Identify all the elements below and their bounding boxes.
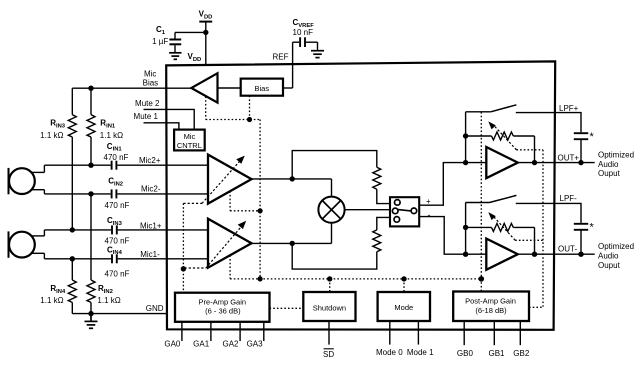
svg-text:1.1 kΩ: 1.1 kΩ [97, 296, 120, 305]
label 470 nF CIN2 [105, 201, 130, 210]
wire dotted bus to shutdown [329, 279, 331, 292]
control bus dashed horizontal [230, 278, 481, 280]
svg-text:OUT+: OUT+ [558, 153, 580, 162]
capacitor CIN4 [112, 254, 209, 263]
svg-text:GND: GND [146, 304, 164, 313]
wire OUT- [518, 253, 595, 255]
svg-text:Mic2-: Mic2- [141, 184, 161, 193]
node junction RIN1/Mic2+ [88, 163, 93, 168]
svg-text:GA2: GA2 [222, 340, 239, 349]
node junction OUT+ feedback [532, 160, 537, 165]
label OUT+ [558, 153, 580, 162]
label Optimized Audio Ouput (lower) [598, 242, 634, 270]
op-amp U1 mute tap dashed [230, 191, 260, 211]
wire R top to switch box [377, 189, 390, 203]
label Mic1- pin [140, 250, 160, 259]
microphone MIC1 (top) [9, 165, 45, 194]
node junction RIN2/Mic2- [88, 191, 93, 196]
wire U1 out down to mixer [331, 179, 333, 197]
node junction RIN4/Mic1- [70, 256, 75, 261]
resistor R top (to switch) [373, 167, 381, 189]
block Bias [241, 79, 283, 96]
wire U3 feedback left leg [465, 112, 467, 163]
ground symbol at GND [85, 314, 98, 329]
wire dotted LPF switch control vertical [480, 112, 482, 292]
svg-text:Optimized: Optimized [598, 151, 634, 160]
node junction VDD-C1 [203, 30, 208, 35]
wire U6 out to R bottom [292, 243, 377, 269]
label OUT- [558, 245, 577, 254]
capacitor CVREF [293, 37, 318, 50]
label RIN4 [50, 284, 66, 295]
label Mute 1 [134, 112, 159, 121]
wire U1 output [252, 178, 332, 180]
label CVREF [293, 18, 315, 29]
pin Mode 1 [417, 321, 419, 345]
capacitor C1 [169, 32, 181, 52]
feedback resistor U4 [466, 223, 535, 254]
svg-text:(6-18 dB): (6-18 dB) [475, 306, 507, 315]
capacitor CIN3 [112, 225, 209, 234]
wire R bottom to switch box [377, 217, 390, 230]
wire Mute 2 [144, 109, 195, 129]
wire OUT+ [518, 162, 595, 164]
pin GA0 [181, 322, 183, 341]
resistor RIN3 [68, 88, 76, 230]
label 470 nF CIN3 [105, 236, 130, 245]
svg-text:(6 - 36 dB): (6 - 36 dB) [205, 307, 241, 316]
label * upper [590, 131, 595, 143]
node dot gain control [181, 266, 186, 271]
label 1.1 kOhm RIN4 [40, 296, 63, 305]
svg-text:REF: REF [273, 53, 289, 62]
label RIN1 [100, 119, 116, 130]
node VDD top label [199, 10, 213, 21]
label 10 nF [293, 28, 314, 37]
block Shutdown [303, 292, 355, 321]
capacitor LPF- external [574, 224, 588, 254]
wire Mic2+ line [44, 164, 110, 166]
feedback resistor U3 [466, 132, 535, 163]
wire dotted U2-bias to control bus [206, 96, 260, 279]
wire U6 out to mixer [331, 223, 333, 244]
wire switch + output to U3 [419, 163, 486, 206]
wire Mic2- line [44, 193, 110, 195]
wire Mute 1 [144, 123, 179, 130]
wire U4 feedback left leg [465, 203, 467, 255]
op-amp U2 mic bias buffer [191, 73, 217, 102]
wire VDD vertical [205, 22, 207, 66]
svg-text:1 µF: 1 µF [152, 37, 168, 46]
ground below C1 [169, 53, 181, 60]
svg-text:Ouput: Ouput [598, 169, 621, 178]
svg-text:GA0: GA0 [164, 340, 181, 349]
svg-text:Mute 1: Mute 1 [134, 112, 159, 121]
IC main block outline [166, 61, 555, 329]
pin GB0 [463, 321, 465, 345]
block Mic CNTRL [174, 130, 205, 151]
block Mode [378, 292, 430, 321]
svg-text:Mode 1: Mode 1 [407, 348, 434, 357]
block Post-Amp Gain [453, 292, 529, 322]
pin GA3 [263, 322, 265, 341]
wire LPF- [516, 203, 581, 223]
svg-text:Mic: Mic [144, 70, 156, 79]
svg-text:Post-Amp Gain: Post-Amp Gain [465, 297, 516, 306]
svg-text:LPF-: LPF- [560, 194, 578, 203]
svg-text:470 nF: 470 nF [104, 153, 129, 162]
label GND [146, 304, 164, 313]
svg-text:1.1 kΩ: 1.1 kΩ [100, 131, 123, 140]
svg-text:Mute 2: Mute 2 [135, 99, 160, 108]
label CIN3 [107, 216, 123, 227]
svg-text:CNTRL: CNTRL [177, 141, 202, 150]
svg-text:Audio: Audio [598, 160, 619, 169]
node junction U1 out [290, 176, 295, 181]
label Mic Bias [143, 70, 159, 88]
label 1.1 kOhm RIN1 [100, 131, 123, 140]
svg-text:Pre-Amp Gain: Pre-Amp Gain [199, 298, 247, 307]
label CIN1 [107, 142, 123, 153]
label GB1 [488, 349, 505, 358]
op-amp U6 mute tap dashed [229, 255, 231, 279]
node dot control bus lower [258, 276, 263, 281]
svg-text:Audio: Audio [598, 252, 619, 261]
svg-text:*: * [590, 221, 595, 233]
svg-text:470 nF: 470 nF [105, 236, 130, 245]
wire dotted post-amp gain right [529, 306, 543, 308]
label GA3 [247, 340, 264, 349]
label 1 uF [152, 37, 168, 46]
svg-text:Mic1+: Mic1+ [140, 222, 162, 231]
svg-text:Mic2+: Mic2+ [139, 156, 161, 165]
label Mic1+ pin [140, 222, 162, 231]
resistor RIN4 [68, 259, 76, 314]
label VDD at pin [188, 52, 202, 63]
gain arrow U4 (dashed) [493, 216, 515, 240]
svg-text:470 nF: 470 nF [105, 201, 130, 210]
op-amp U4 output bottom [486, 239, 518, 270]
label 1.1 kOhm RIN2 [97, 296, 120, 305]
label 470 nF CIN1 [104, 153, 129, 162]
node dot bus shutdown [327, 276, 332, 281]
wire dotted post-gain control to U4 arrow [515, 239, 543, 241]
svg-text:Optimized: Optimized [598, 242, 634, 251]
pin GA2 [239, 322, 241, 341]
svg-text:10 nF: 10 nF [293, 28, 314, 37]
label C1 [156, 25, 166, 36]
wire U1 out to R top [292, 151, 377, 179]
svg-text:GB0: GB0 [457, 349, 474, 358]
node junction U3 input [463, 160, 468, 165]
wire VDD to C1 [175, 31, 206, 33]
node junction OUT- external [578, 252, 583, 257]
wire switch - output to U4 [419, 217, 486, 255]
svg-text:Bias: Bias [255, 84, 270, 93]
gain arrow U6 (dashed) [185, 226, 242, 268]
ground below CVREF [311, 51, 324, 58]
svg-text:SD: SD [323, 350, 334, 359]
resistor RIN1 [87, 88, 95, 165]
wire REF pin [292, 42, 294, 88]
wire Mic1+ line [44, 229, 111, 231]
op-amp U6 pre-amp bottom [208, 219, 252, 268]
node junction U4 feedback [463, 225, 468, 230]
node junction GND/ground [88, 311, 93, 316]
node junction RIN3/Mic1+ [70, 227, 75, 232]
wire U6 output [252, 242, 332, 244]
label SD with overline [323, 350, 334, 359]
label CIN2 [108, 177, 123, 188]
wire LPF+ [516, 113, 581, 133]
node junction U6 out [290, 241, 295, 246]
svg-text:Mic1-: Mic1- [140, 250, 160, 259]
wire dotted bus to mode [403, 279, 405, 292]
svg-text:1.1 kΩ: 1.1 kΩ [40, 131, 63, 140]
svg-text:*: * [590, 131, 595, 143]
wire U2 to Bias [218, 87, 241, 89]
capacitor CIN1 [112, 161, 209, 170]
mixer (multiplier) [318, 197, 344, 223]
resistor R bottom (to switch) [373, 230, 381, 252]
svg-text:GB1: GB1 [488, 349, 505, 358]
label - [428, 210, 431, 220]
svg-text:GA1: GA1 [193, 340, 210, 349]
switch LPF- [466, 195, 517, 202]
label LPF- [560, 194, 578, 203]
svg-text:-: - [428, 210, 431, 220]
resistor RIN2 [87, 194, 95, 314]
wire dotted pre-amp to shutdown [270, 307, 304, 309]
node junction mic bias / RIN1 [88, 86, 93, 91]
node dot bias dotted junction [247, 117, 252, 122]
svg-text:Bias: Bias [143, 78, 159, 87]
node dot bus mode [401, 276, 406, 281]
label GA1 [193, 340, 210, 349]
label GA0 [164, 340, 181, 349]
label GB0 [457, 349, 474, 358]
wire dashed gain control vertical [182, 203, 184, 292]
op-amp U1 pre-amp top [208, 155, 252, 204]
power terminal VDD [199, 21, 212, 23]
gain arrow U1 (dashed) [183, 161, 240, 204]
node junction OUT- feedback [532, 252, 537, 257]
label 1.1 kOhm RIN3 [40, 131, 63, 140]
svg-text:Ouput: Ouput [598, 261, 621, 270]
svg-text:Mic: Mic [184, 132, 196, 141]
op-amp U3 output top [486, 147, 518, 178]
label Optimized Audio Ouput (upper) [598, 151, 634, 178]
label Mode 1 [407, 348, 434, 357]
wire REF to Bias box [283, 87, 293, 89]
label + [426, 197, 431, 206]
pin Mode 0 [389, 321, 391, 345]
label REF [273, 53, 289, 62]
gain arrow U3 (dashed) [494, 125, 517, 150]
svg-text:OUT-: OUT- [558, 245, 577, 254]
label * lower [590, 221, 595, 233]
label Mute 2 [135, 99, 160, 108]
label RIN3 [50, 119, 66, 130]
node dot control bus at post-amp [479, 276, 485, 282]
svg-text:Mode 0: Mode 0 [376, 348, 403, 357]
node junction U3 feedback [463, 133, 468, 138]
label RIN2 [98, 284, 113, 295]
capacitor CIN2 [112, 189, 209, 198]
wire Mic1- line [44, 258, 111, 260]
capacitor LPF+ external [574, 133, 588, 162]
label GB2 [513, 349, 530, 358]
block Pre-Amp Gain [175, 293, 270, 322]
svg-text:Shutdown: Shutdown [313, 304, 346, 313]
pin GB2 [519, 321, 521, 345]
label Mic2+ pin [139, 156, 161, 165]
svg-text:470 nF: 470 nF [105, 269, 130, 278]
label CIN4 [107, 245, 123, 256]
label LPF+ [559, 104, 579, 113]
microphone MIC2 (bottom) [9, 230, 45, 259]
node junction OUT+ external [578, 160, 583, 165]
pin GA1 [210, 322, 212, 341]
node dot control bus upper [258, 208, 263, 213]
label Mic2- pin [141, 184, 161, 193]
switch block U5 [390, 197, 419, 226]
label Mode 0 [376, 348, 403, 357]
svg-text:Mode: Mode [394, 303, 413, 312]
wire GND [72, 313, 167, 315]
wire Mic Bias [72, 87, 191, 89]
label GA2 [222, 340, 239, 349]
switch LPF+ [466, 105, 517, 112]
wire dotted post-gain control to U3 arrow [516, 150, 543, 307]
svg-text:LPF+: LPF+ [559, 104, 579, 113]
svg-text:GA3: GA3 [247, 340, 264, 349]
label 470 nF CIN4 [105, 269, 130, 278]
pin SD [328, 321, 330, 345]
svg-text:GB2: GB2 [513, 349, 530, 358]
wire mixer out [345, 209, 390, 211]
node junction U4 input [463, 252, 468, 257]
svg-text:1.1 kΩ: 1.1 kΩ [40, 296, 63, 305]
pin GB1 [493, 321, 495, 345]
